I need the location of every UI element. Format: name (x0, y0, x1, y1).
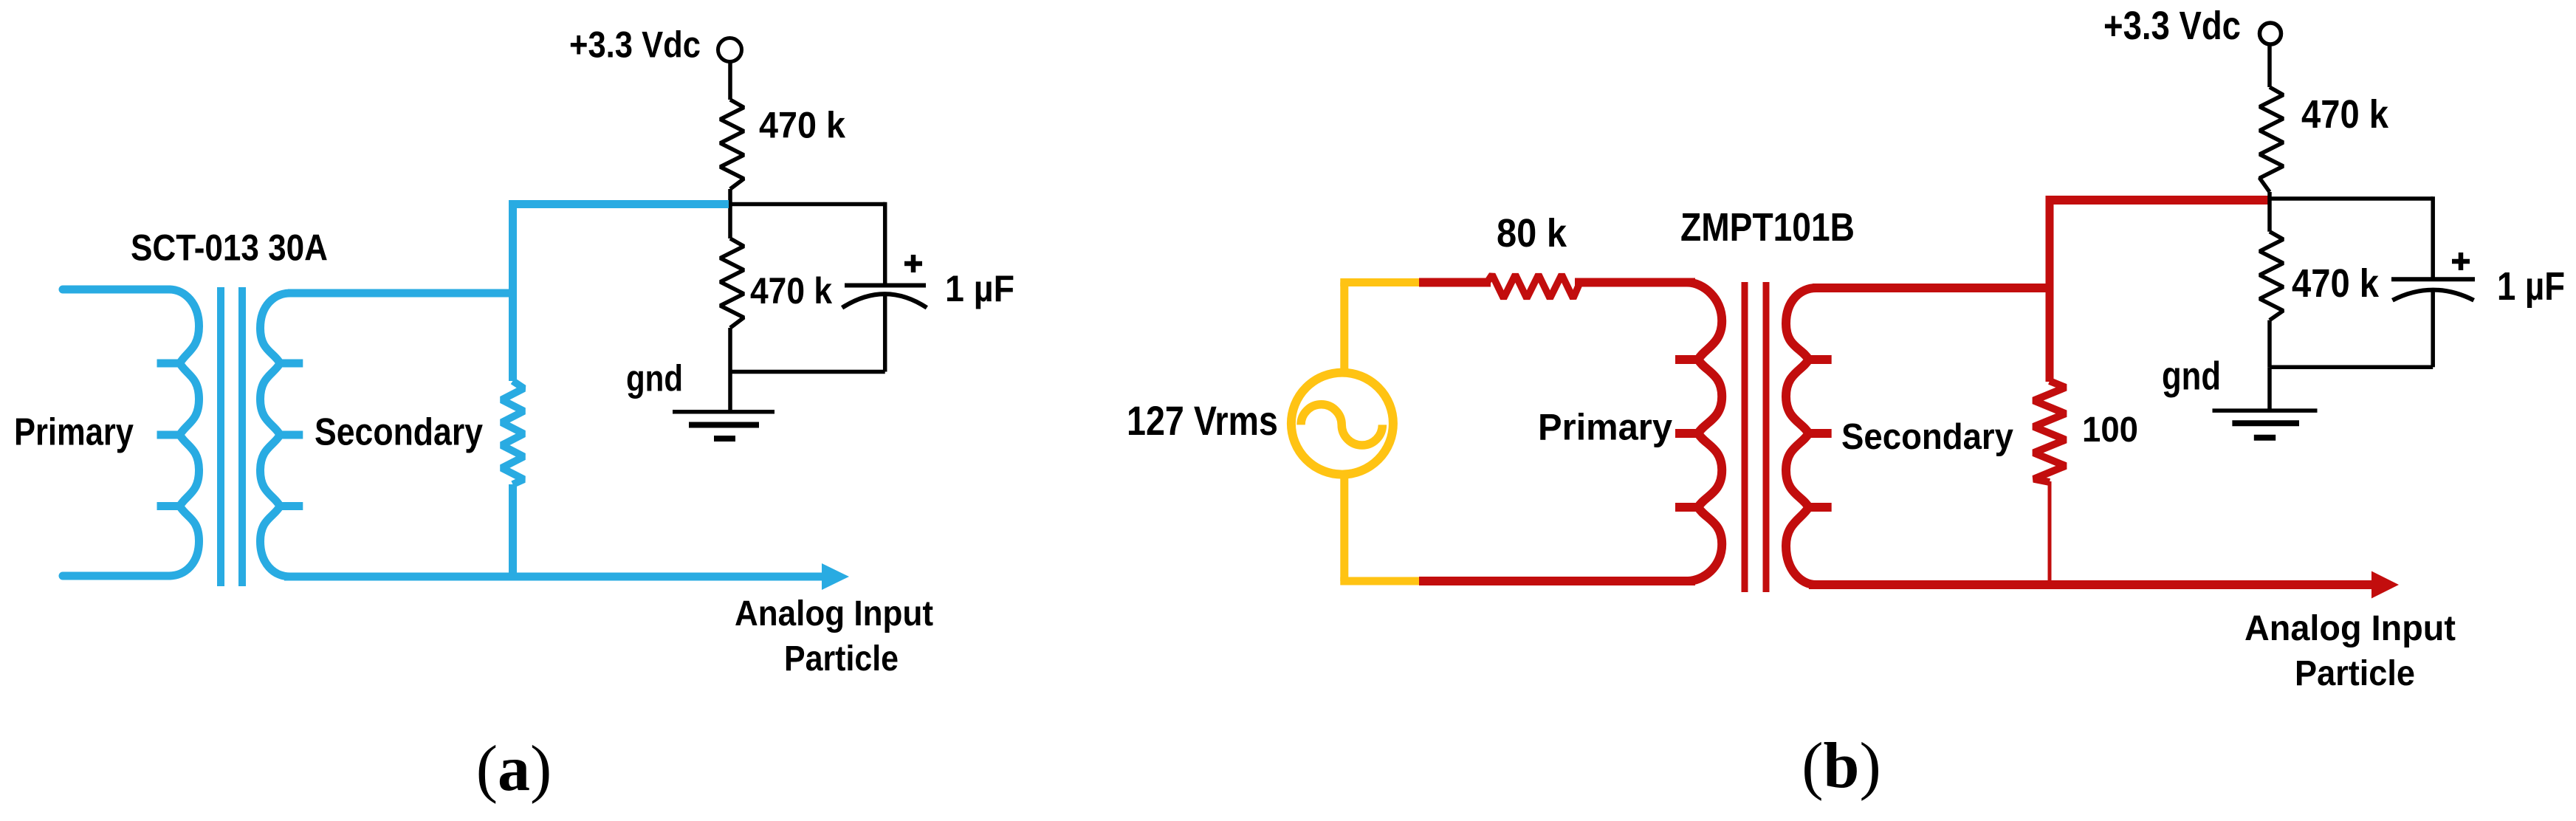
svg-text:Secondary: Secondary (315, 410, 483, 453)
svg-text:+3.3 Vdc: +3.3 Vdc (569, 24, 701, 66)
svg-text:SCT-013 30A: SCT-013 30A (131, 227, 328, 269)
svg-text:470 k: 470 k (750, 270, 832, 312)
svg-text:100: 100 (2082, 410, 2138, 450)
svg-text:Primary: Primary (14, 410, 134, 453)
svg-text:1 µF: 1 µF (2497, 264, 2565, 309)
svg-text:470 k: 470 k (2301, 92, 2389, 137)
svg-text:gnd: gnd (626, 358, 683, 399)
svg-text:Secondary: Secondary (1841, 417, 2013, 457)
svg-text:+3.3 Vdc: +3.3 Vdc (2103, 4, 2241, 48)
svg-text:127 Vrms: 127 Vrms (1127, 398, 1278, 444)
svg-text:80 k: 80 k (1497, 211, 1567, 255)
svg-text:gnd: gnd (2162, 354, 2221, 399)
svg-text:(b): (b) (1802, 730, 1881, 802)
svg-text:Particle: Particle (2295, 654, 2415, 693)
svg-text:470 k: 470 k (2292, 261, 2380, 306)
svg-text:1 µF: 1 µF (945, 268, 1014, 309)
svg-text:Analog Input: Analog Input (2244, 609, 2456, 648)
svg-text:470 k: 470 k (759, 105, 845, 146)
svg-text:Analog Input: Analog Input (735, 594, 933, 633)
svg-text:Primary: Primary (1538, 407, 1672, 448)
svg-text:ZMPT101B: ZMPT101B (1680, 205, 1855, 250)
svg-text:(a): (a) (476, 733, 552, 805)
svg-text:Particle: Particle (784, 639, 899, 679)
